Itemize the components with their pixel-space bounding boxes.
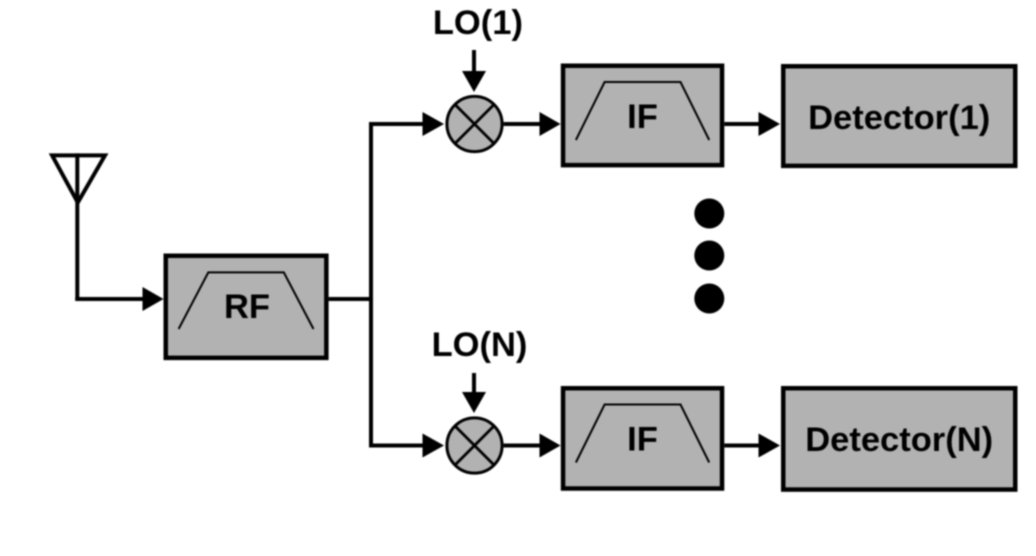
wire splitter to mixer 1 [369,122,423,126]
arrowhead LO(1) into mixer 1 [462,71,486,92]
arrowhead into detector 1 [759,112,781,136]
RF bandpass filter [166,256,327,358]
svg-text:Detector(1): Detector(1) [808,99,990,137]
IF bandpass filter N [563,388,722,488]
wire LO(N) to mixer N [472,373,476,394]
wire LO(1) to mixer 1 [472,50,476,73]
mixer MN [447,418,502,473]
svg-text:IF: IF [627,98,658,136]
arrowhead into detector N [759,434,781,458]
detector N [783,388,1015,489]
splitter vertical wire [369,122,373,448]
ellipsis dot 1 [694,199,724,229]
arrowhead into RF filter [143,287,164,311]
arrowhead into mixer N [423,434,445,458]
detector 1 [783,66,1015,166]
arrowhead into IF filter N [540,434,561,458]
wire IF filter N to detector N [724,444,759,448]
svg-text:IF: IF [627,421,658,459]
arrowhead into mixer 1 [423,112,445,136]
wire mixer 1 to IF filter 1 [504,122,540,126]
wire mixer N to IF filter N [504,444,540,448]
wire IF filter 1 to detector 1 [724,122,759,126]
wire antenna to RF filter [75,297,144,301]
mixer M1 [447,96,502,151]
svg-text:Detector(N): Detector(N) [805,421,993,459]
ellipsis dot 2 [694,241,724,271]
wire RF filter to splitter node [329,297,373,301]
svg-text:LO(N): LO(N) [432,326,528,364]
arrowhead LO(N) into mixer N [462,392,486,413]
svg-text:LO(1): LO(1) [433,4,523,42]
IF bandpass filter 1 [563,66,722,165]
svg-text:RF: RF [224,288,270,326]
arrowhead into IF filter 1 [540,112,561,136]
wire splitter to mixer N [369,444,423,448]
antenna ANT1 [52,153,105,301]
ellipsis dot 3 [694,284,724,314]
